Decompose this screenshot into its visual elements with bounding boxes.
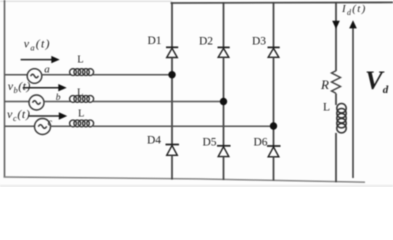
wire: phase b middle segment [44, 101, 71, 103]
wire: top dc rail [171, 1, 393, 4]
wire: load branch upper segment [335, 2, 337, 71]
inductor L phase b [70, 96, 94, 103]
arrow: output voltage reference (up) [349, 20, 357, 178]
faint scan border top [0, 0, 172, 2]
wire: column2 top segment [223, 2, 225, 47]
source vc [35, 119, 51, 135]
inductor L phase a [70, 69, 94, 76]
svg-text:D1: D1 [148, 35, 162, 47]
diode D6 [267, 146, 281, 157]
wire: column1 top segment [171, 2, 173, 47]
svg-text:D5: D5 [203, 136, 217, 148]
svg-text:va(t): va(t) [24, 37, 51, 53]
diode D2 [218, 47, 230, 57]
wire: load branch between R and L [335, 94, 337, 106]
wire: bottom dc rail [4, 177, 366, 182]
diode D5 [217, 146, 231, 157]
diode D1 [166, 47, 178, 57]
diode D3 [268, 47, 280, 57]
arrow: phase c voltage arrow [28, 112, 67, 119]
wire: load branch lower segment [335, 133, 337, 182]
node a junction dot [168, 71, 175, 78]
svg-text:Id(t): Id(t) [341, 3, 367, 17]
source vb [29, 95, 44, 110]
diode D4 [166, 145, 180, 156]
svg-text:R: R [320, 77, 329, 92]
svg-text:Vd: Vd [365, 65, 389, 96]
wire: column1 bottom segment [171, 155, 173, 179]
wire: column2 bottom segment [223, 157, 225, 180]
svg-text:D6: D6 [254, 136, 268, 148]
svg-text:D2: D2 [199, 36, 213, 48]
faint scan band bottom [0, 185, 393, 187]
svg-text:L: L [323, 102, 330, 114]
svg-text:vc(t): vc(t) [7, 107, 30, 123]
inductor L phase c [70, 120, 94, 127]
node c junction dot [270, 122, 277, 129]
wire: phase b left segment [5, 101, 29, 103]
wire: phase a middle segment [42, 74, 71, 76]
svg-text:D4: D4 [147, 135, 161, 147]
wire: phase c middle segment [51, 125, 71, 127]
wire: phase a left segment [5, 74, 27, 76]
inductor L load [337, 104, 346, 133]
svg-text:D3: D3 [252, 36, 266, 48]
wire: left neutral bus (left border line) [4, 0, 6, 178]
svg-text:a: a [44, 63, 50, 75]
svg-text:L: L [77, 55, 83, 66]
node b junction dot [220, 98, 227, 105]
arrow: phase b voltage arrow [23, 84, 67, 91]
wire: phase c right segment [93, 125, 270, 127]
wire: column3 bottom segment [273, 157, 275, 181]
wire: phase b right segment [93, 101, 220, 103]
resistor R [332, 71, 341, 94]
wire: column1 middle segment [171, 58, 173, 145]
arrow: load current direction (down) [332, 21, 340, 29]
wire: column2 middle segment [223, 57, 225, 146]
wire: column3 top segment [273, 2, 275, 47]
wire: phase a right segment [93, 74, 169, 76]
wire: column3 middle segment [273, 57, 275, 146]
svg-text:L: L [78, 109, 84, 120]
source va [27, 69, 42, 84]
arrow: phase a voltage arrow [21, 56, 60, 63]
wire: phase c left segment [5, 125, 35, 127]
